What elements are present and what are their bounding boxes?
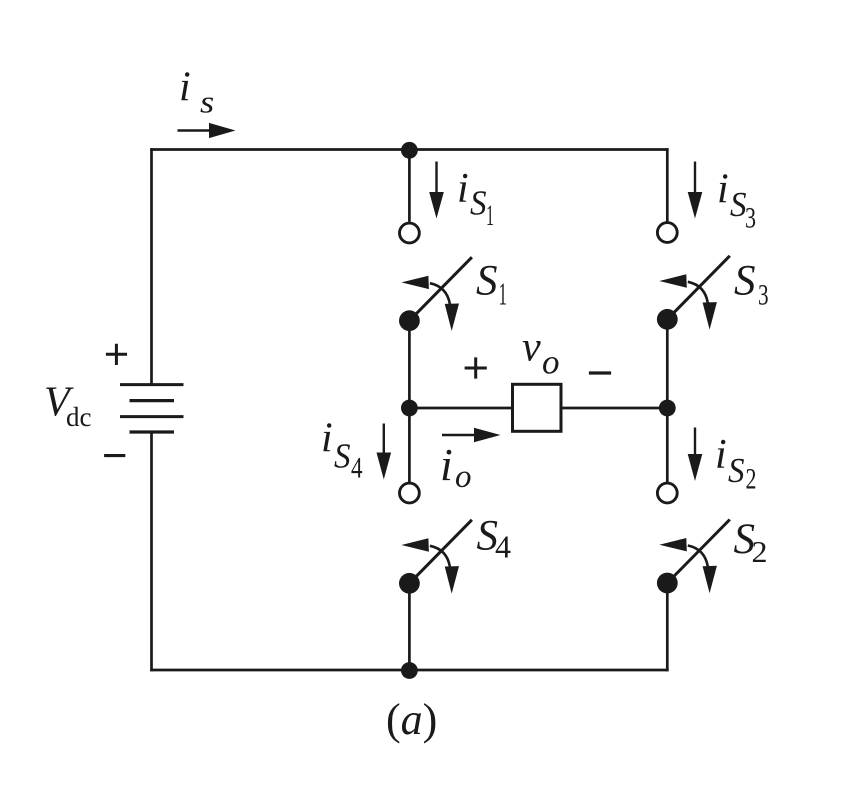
arrow is (source current): [178, 123, 236, 138]
svg-text:o: o: [455, 459, 472, 495]
arrow iS4: [377, 424, 392, 480]
wire left leg: S1 to output node A: [408, 321, 411, 408]
svg-text:S: S: [476, 258, 498, 305]
wire left leg: node A to S4 terminal: [408, 408, 411, 483]
switch S2: [657, 520, 730, 594]
load box: [513, 384, 562, 431]
wire top bus: [150, 148, 668, 151]
wire output: node A to load: [409, 407, 513, 410]
battery Vdc plate short: [130, 399, 175, 402]
terminal circle: switch S2 top: [657, 483, 677, 503]
battery Vdc plate long top: [120, 383, 184, 386]
switch S1: [399, 257, 472, 331]
battery Vdc plate short bottom: [130, 430, 175, 433]
wire left leg: S4 to bottom bus: [408, 583, 411, 671]
svg-text:2: 2: [746, 463, 757, 496]
terminal circle: switch S1 top: [400, 223, 420, 243]
arrow iS1: [429, 162, 444, 219]
wire left lower (source negative lead): [150, 432, 153, 671]
load plus sign: [465, 357, 487, 378]
node A: left output junction: [401, 400, 418, 417]
svg-text:i: i: [321, 416, 333, 462]
svg-text:S: S: [734, 258, 756, 305]
wire right leg: S3 to output node B: [666, 319, 669, 408]
arrow io (output current): [442, 428, 501, 442]
terminal circle: switch S4 top: [400, 483, 420, 503]
svg-text:i: i: [715, 432, 727, 478]
svg-text:S: S: [728, 451, 745, 490]
wire left leg: top node to S1 terminal: [408, 150, 411, 222]
svg-text:i: i: [717, 167, 729, 213]
svg-text:3: 3: [758, 279, 769, 312]
wire bottom bus: [150, 669, 668, 672]
wire left upper (source positive lead): [150, 148, 153, 384]
node B: right output junction: [659, 400, 676, 417]
svg-text:s: s: [200, 84, 214, 120]
node: top bus / left leg junction: [401, 142, 418, 159]
battery Vdc plate long: [120, 415, 184, 418]
svg-text:S: S: [470, 183, 487, 222]
svg-text:2: 2: [752, 534, 768, 569]
terminal circle: switch S3 top: [657, 223, 677, 243]
svg-text:S: S: [334, 436, 351, 475]
battery plus sign: [106, 344, 127, 365]
wire right leg: node B to S2 terminal: [666, 408, 669, 483]
battery minus sign: [104, 454, 125, 457]
wire right leg: S2 to bottom bus: [666, 583, 669, 671]
switch S4: [399, 520, 472, 594]
arrow iS2: [688, 428, 703, 482]
node: bottom bus / left leg junction: [401, 662, 418, 679]
svg-text:4: 4: [495, 529, 511, 565]
svg-text:v: v: [522, 325, 541, 371]
svg-text:1: 1: [499, 276, 508, 312]
wire output: load to node B: [560, 407, 669, 410]
svg-text:3: 3: [745, 201, 756, 234]
svg-text:(a): (a): [386, 695, 437, 744]
svg-text:i: i: [179, 65, 191, 111]
svg-text:i: i: [440, 439, 453, 490]
svg-text:1: 1: [486, 199, 494, 232]
svg-text:4: 4: [351, 452, 363, 485]
svg-text:dc: dc: [66, 402, 92, 432]
svg-text:i: i: [457, 166, 469, 212]
arrow iS3: [688, 162, 703, 219]
wire right leg: top bus to S3 terminal: [666, 148, 669, 221]
switch S3: [657, 256, 730, 330]
svg-text:o: o: [542, 343, 560, 382]
load minus sign: [589, 371, 611, 374]
